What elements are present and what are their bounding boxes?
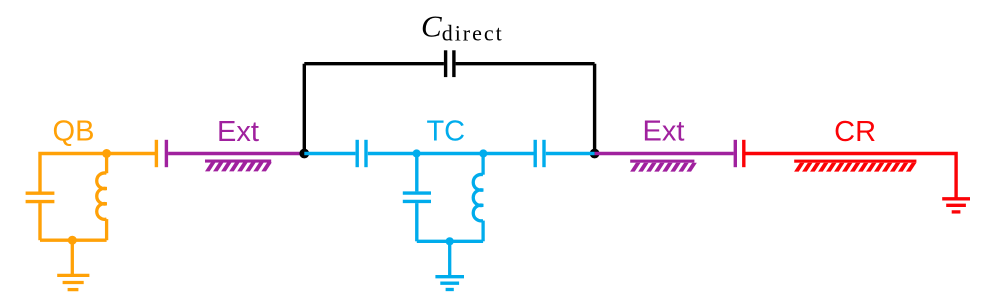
- svg-text:QB: QB: [53, 116, 95, 148]
- node TC left: [413, 149, 421, 157]
- node junction left (black): [299, 149, 309, 159]
- capacitor QB-Ext coupling (orange plate): [155, 140, 158, 167]
- svg-text:TC: TC: [426, 116, 465, 148]
- ground QB: [57, 240, 89, 289]
- wire TC out: [546, 152, 595, 155]
- node QB bottom: [68, 236, 77, 245]
- transmission line Ext right (bar with hatching): [630, 160, 697, 172]
- wire direct-coupling top right: [456, 62, 595, 65]
- capacitor Ext-CR coupling (red plate): [742, 140, 745, 167]
- svg-text:Ext: Ext: [217, 116, 259, 148]
- transmission line CR (bar with hatching): [794, 160, 916, 172]
- svg-text:CR: CR: [834, 116, 876, 148]
- capacitor C_direct: [446, 50, 454, 77]
- wire direct-coupling riser left: [303, 64, 306, 154]
- wire TC shunt-cap lower lead: [415, 203, 418, 241]
- capacitor TC shunt: [403, 193, 431, 201]
- svg-text:Ext: Ext: [643, 116, 685, 148]
- wire Ext right: [595, 152, 734, 155]
- wire CR: [746, 154, 957, 198]
- capacitor QB-Ext coupling (purple plate): [165, 140, 168, 167]
- capacitor TC right series: [535, 140, 544, 167]
- wire Ext left: [168, 152, 304, 155]
- capacitor QB shunt: [26, 193, 55, 201]
- wire TC in: [304, 152, 355, 155]
- capacitor TC left series: [357, 140, 366, 167]
- node junction right (black): [590, 149, 600, 159]
- inductor TC: [473, 154, 483, 242]
- wire TC shunt-cap lead: [415, 154, 418, 192]
- wire QB left-top: [40, 154, 155, 192]
- wire direct-coupling riser right: [593, 64, 596, 154]
- wire QB bottom: [40, 238, 107, 241]
- node TC right: [479, 149, 487, 157]
- wire TC mid-right: [483, 152, 533, 155]
- ground TC: [435, 241, 464, 289]
- ground CR: [942, 199, 970, 212]
- svg-text:Cdirect: Cdirect: [421, 9, 504, 46]
- wire QB top: [38, 203, 41, 240]
- capacitor Ext-CR coupling (purple plate): [734, 140, 737, 167]
- node TC bottom: [446, 237, 454, 245]
- wire direct-coupling top left: [304, 62, 444, 65]
- wire TC mid-left: [368, 152, 484, 155]
- node QB top: [102, 149, 111, 158]
- wire TC bottom: [417, 240, 483, 243]
- inductor QB: [97, 154, 107, 241]
- transmission line Ext left (bar with hatching): [205, 160, 272, 172]
